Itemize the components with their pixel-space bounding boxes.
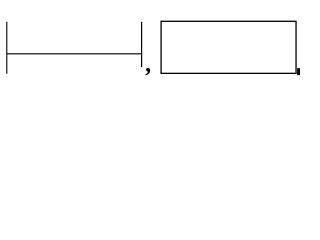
interval segment: right end bar <box>141 22 143 67</box>
svg-text:,: , <box>145 52 151 78</box>
interval segment: left end bar <box>6 22 8 74</box>
filled end-of-proof square <box>297 68 302 75</box>
rectangle box <box>161 21 296 73</box>
wire: horizontal line of interval <box>7 53 142 55</box>
